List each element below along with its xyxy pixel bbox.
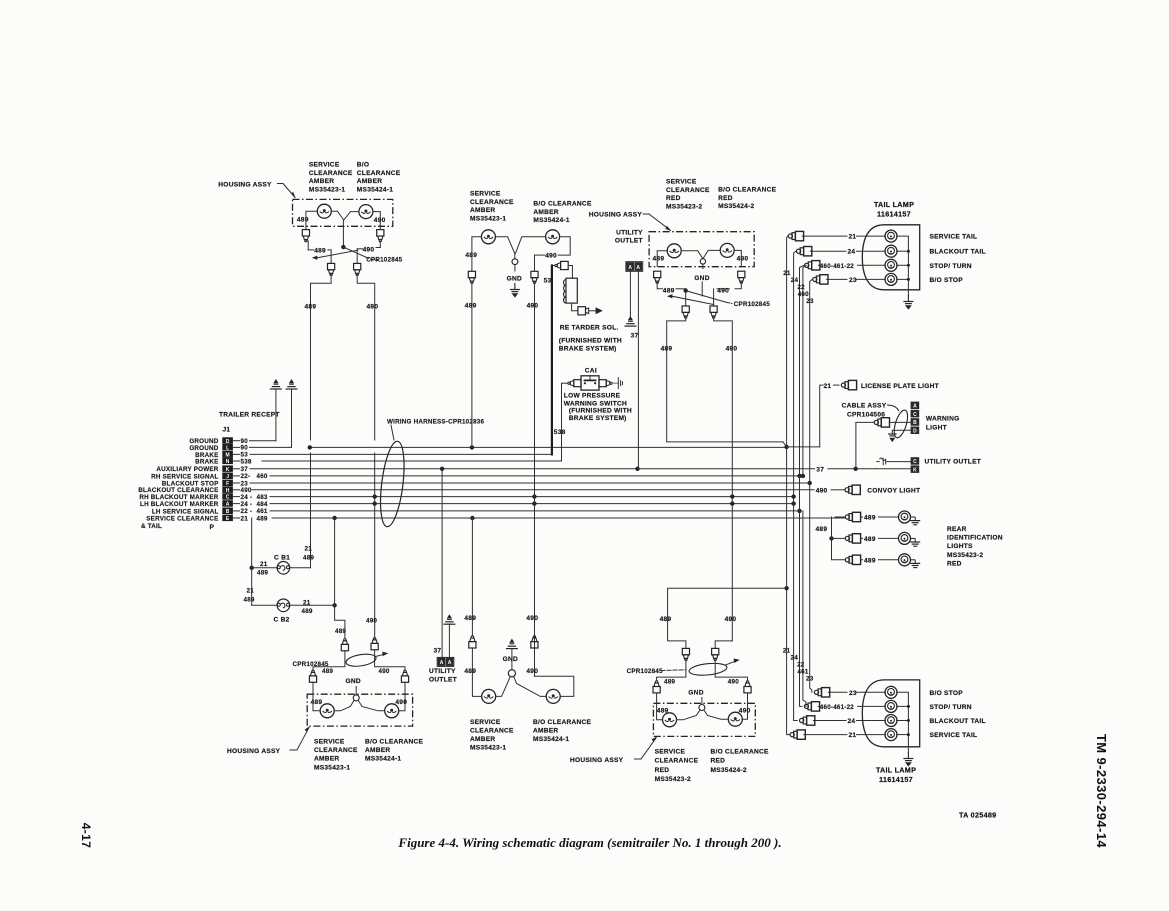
- wire 489 jog top-left: [306, 241, 308, 250]
- housing box bottom-left: [307, 694, 412, 726]
- ground stem row2: [291, 389, 293, 447]
- svg-text:RH BLACKOUT MARKER: RH BLACKOUT MARKER: [139, 494, 218, 501]
- svg-text:B/O CLEARANCE: B/O CLEARANCE: [365, 739, 424, 746]
- wire 489 jog down bottom-right: [657, 660, 686, 681]
- svg-text:CABLE ASSY: CABLE ASSY: [842, 402, 887, 409]
- connector plug 490a top-right: [738, 271, 745, 283]
- wire 22-460 row6: [270, 475, 803, 477]
- circuit breaker C B1: [277, 562, 290, 575]
- svg-text:B/O STOP: B/O STOP: [930, 690, 964, 697]
- svg-text:AMBER: AMBER: [357, 178, 382, 185]
- pin stub wires: [234, 440, 240, 442]
- svg-text:490: 490: [526, 668, 538, 675]
- connector plug 489a bottom-right: [682, 648, 689, 660]
- svg-text:HOUSING ASSY: HOUSING ASSY: [570, 757, 624, 764]
- svg-text:490: 490: [725, 616, 737, 623]
- svg-text:HOUSING ASSY: HOUSING ASSY: [218, 182, 272, 189]
- stub lp right: [612, 382, 618, 384]
- wiring harness leader: [391, 425, 394, 440]
- svg-text:484: 484: [257, 501, 268, 508]
- connector plug 490b bottom-left: [401, 670, 408, 682]
- svg-text:HOUSING ASSY: HOUSING ASSY: [589, 212, 643, 219]
- wire 490 feed bottom-right: [715, 641, 732, 649]
- svg-text:21: 21: [260, 561, 268, 568]
- svg-text:22: 22: [797, 284, 805, 291]
- svg-text:490: 490: [728, 678, 739, 685]
- svg-text:CONVOY LIGHT: CONVOY LIGHT: [867, 488, 920, 495]
- utility outlet top receptacle: [626, 262, 634, 271]
- svg-text:STOP/ TURN: STOP/ TURN: [930, 704, 972, 711]
- svg-text:24 -: 24 -: [241, 494, 253, 501]
- svg-text:C B2: C B2: [274, 617, 290, 624]
- svg-text:538: 538: [241, 458, 252, 465]
- svg-text:90: 90: [241, 445, 249, 452]
- svg-text:CPR102845: CPR102845: [734, 301, 770, 308]
- wire 490 drop jog top-left: [357, 275, 375, 441]
- lamp 490 top-middle: [546, 230, 560, 244]
- wire 21 row to bulb bottom: [804, 734, 847, 736]
- connector plug 21 bottom: [790, 730, 805, 739]
- svg-text:D: D: [913, 429, 917, 435]
- housing box top-left: [293, 199, 393, 226]
- wire 538 row4: [262, 460, 562, 462]
- svg-text:490: 490: [379, 668, 390, 675]
- svg-text:C: C: [913, 459, 917, 465]
- svg-text:RH SERVICE SIGNAL: RH SERVICE SIGNAL: [151, 473, 218, 480]
- wire rear id riser: [832, 517, 846, 560]
- connector plug 24 bottom: [800, 716, 815, 725]
- svg-text:BRAKE SYSTEM): BRAKE SYSTEM): [559, 345, 617, 352]
- svg-text:MS35423-2: MS35423-2: [655, 776, 691, 783]
- lamp 489 bottom-middle: [482, 689, 496, 703]
- svg-text:HOUSING ASSY: HOUSING ASSY: [227, 748, 281, 755]
- svg-text:GND: GND: [503, 656, 518, 663]
- svg-text:J1: J1: [223, 427, 231, 434]
- svg-text:489: 489: [335, 628, 346, 635]
- svg-text:490: 490: [816, 488, 828, 495]
- svg-text:SERVICE: SERVICE: [470, 191, 501, 198]
- wire 489 drop jog top-left: [311, 275, 332, 441]
- svg-text:AMBER: AMBER: [365, 747, 390, 754]
- svg-text:AMBER: AMBER: [314, 756, 339, 763]
- ground funnel bottom-left: [353, 695, 359, 701]
- svg-text:489: 489: [257, 515, 268, 522]
- ground symbol utility top: [624, 316, 636, 326]
- connector plug 490b bottom-right: [744, 681, 751, 693]
- tail lamp internal bus top: [897, 236, 909, 290]
- svg-text:B: B: [913, 420, 917, 426]
- node gnd dot top-left: [341, 245, 345, 249]
- wire 24-483 row9: [270, 496, 794, 498]
- svg-text:21: 21: [241, 515, 249, 522]
- lamp 489 top-right: [667, 244, 681, 258]
- connector plug retarder: [555, 264, 557, 266]
- connector plug 23 top: [813, 275, 828, 284]
- svg-text:L: L: [226, 446, 229, 452]
- wire 490 into box bottom-right: [742, 693, 747, 719]
- lamp 490 bottom-middle: [546, 689, 560, 703]
- low pressure switch body: [581, 376, 599, 390]
- wire 460 vertical right upper: [803, 265, 806, 476]
- wire 490 jog down bottom-right: [715, 660, 747, 681]
- svg-text:24: 24: [848, 718, 856, 725]
- svg-text:490: 490: [366, 618, 377, 625]
- wire 90 ground bus row2 segB: [310, 446, 787, 448]
- svg-text:37: 37: [631, 332, 639, 339]
- wire 490 jog top-left: [379, 241, 381, 248]
- svg-text:460: 460: [798, 291, 809, 298]
- svg-text:SERVICE TAIL: SERVICE TAIL: [930, 234, 978, 241]
- svg-text:D: D: [226, 439, 230, 445]
- svg-text:489: 489: [464, 668, 476, 675]
- svg-text:21: 21: [783, 270, 791, 277]
- svg-text:BRAKE: BRAKE: [195, 458, 218, 465]
- housing assy leader bottom-right: [635, 758, 642, 760]
- wire 37 row5: [250, 468, 815, 470]
- tail lamp body top: [862, 225, 919, 290]
- housing assy leader bottom-left: [290, 749, 297, 751]
- svg-text:AUXILIARY POWER: AUXILIARY POWER: [156, 466, 218, 473]
- bus junction dots: [308, 445, 312, 449]
- wire 489 into box bottom-left: [313, 682, 320, 711]
- svg-text:460-461-22: 460-461-22: [820, 263, 855, 270]
- wire to C B1: [252, 567, 277, 569]
- lamp 490 top-left: [359, 205, 373, 219]
- connector plug lp left: [574, 380, 581, 387]
- wire lamp490 to box edge top-right: [734, 250, 741, 266]
- svg-text:AMBER: AMBER: [470, 207, 495, 214]
- wire 21 vertical right: [787, 236, 790, 734]
- svg-text:F: F: [226, 481, 229, 487]
- connector plug 22 top: [805, 261, 820, 270]
- svg-text:489: 489: [816, 526, 828, 533]
- svg-text:490: 490: [374, 217, 386, 224]
- svg-text:MS35423-2: MS35423-2: [947, 552, 983, 559]
- connector plug 489a top-right: [654, 271, 661, 283]
- noise symbol utility right: [877, 461, 879, 463]
- svg-text:A: A: [448, 660, 452, 666]
- svg-text:23: 23: [806, 298, 814, 305]
- svg-text:B/O CLEARANCE: B/O CLEARANCE: [718, 187, 777, 194]
- svg-text:489: 489: [322, 668, 333, 675]
- ground circle top-middle: [512, 259, 518, 265]
- ground funnel top-middle: [496, 237, 515, 259]
- svg-text:21: 21: [849, 732, 857, 739]
- svg-text:& TAIL: & TAIL: [141, 523, 162, 530]
- svg-text:MS35423-1: MS35423-1: [470, 745, 506, 752]
- svg-text:TA 025489: TA 025489: [959, 811, 996, 820]
- harness loop bottom-right: [689, 662, 728, 677]
- housing box bottom-right: [653, 703, 755, 736]
- housing assy leader top-left: [278, 183, 284, 185]
- wire 489 feed bottom-right: [668, 588, 787, 648]
- svg-text:AMBER: AMBER: [533, 209, 558, 216]
- svg-text:B: B: [226, 509, 230, 515]
- svg-text:GROUND: GROUND: [189, 445, 218, 452]
- wire 490 drop jog top-right: [714, 317, 733, 641]
- svg-text:BRAKE SYSTEM): BRAKE SYSTEM): [569, 415, 627, 422]
- ground stem row1: [275, 389, 277, 441]
- utility outlet right receptacle: [911, 457, 920, 465]
- svg-text:OUTLET: OUTLET: [429, 677, 457, 684]
- tail lamp bulbs top: [885, 230, 897, 242]
- lamp 490 top-right: [720, 243, 734, 257]
- tail lamp ground bottom: [907, 747, 909, 752]
- svg-text:490: 490: [737, 255, 749, 262]
- connector plug 24 top: [797, 247, 812, 256]
- wire 24 row to bulb bottom: [813, 720, 846, 722]
- svg-text:21: 21: [849, 234, 857, 241]
- svg-text:489: 489: [302, 608, 313, 615]
- rear identification lamp rows: [845, 512, 860, 521]
- wire 23 row to bulb top: [827, 278, 847, 280]
- retarder coil: [566, 278, 577, 303]
- svg-text:LICENSE PLATE LIGHT: LICENSE PLATE LIGHT: [861, 383, 939, 390]
- svg-text:489: 489: [657, 707, 669, 714]
- wire 37 utility top: [637, 271, 639, 469]
- svg-text:21: 21: [783, 647, 791, 654]
- svg-text:11614157: 11614157: [877, 210, 911, 219]
- svg-text:489: 489: [864, 515, 876, 522]
- harness leader CPR102845 top-right: [686, 291, 727, 303]
- svg-text:UTILITY: UTILITY: [616, 229, 643, 236]
- svg-text:21: 21: [247, 588, 255, 595]
- svg-text:B/O CLEARANCE: B/O CLEARANCE: [533, 719, 592, 726]
- harness loop cable assy: [892, 409, 911, 440]
- connector plug cable assy: [874, 418, 889, 427]
- svg-text:483: 483: [257, 494, 268, 501]
- svg-text:489: 489: [297, 217, 309, 224]
- connector plug 23 bottom: [814, 688, 829, 697]
- svg-text:K: K: [913, 467, 917, 473]
- svg-text:460: 460: [257, 473, 268, 480]
- connector plug 489b bottom-right: [653, 681, 660, 693]
- svg-text:489: 489: [663, 287, 675, 294]
- tail lamp bulbs bottom: [885, 686, 897, 698]
- node dot crossover top-right: [684, 288, 688, 292]
- wire 461 vertical right lower: [803, 511, 806, 707]
- svg-text:489: 489: [661, 345, 673, 352]
- svg-text:37: 37: [816, 466, 824, 473]
- svg-text:489: 489: [244, 597, 255, 604]
- svg-text:MS35424-2: MS35424-2: [711, 767, 747, 774]
- ground drop cable assy: [892, 430, 910, 434]
- svg-text:SERVICE: SERVICE: [309, 162, 340, 169]
- wire license plate light: [820, 385, 823, 447]
- svg-text:CPR102845: CPR102845: [366, 257, 402, 264]
- svg-text:MS35423-2: MS35423-2: [666, 203, 702, 210]
- svg-text:490: 490: [395, 699, 407, 706]
- svg-text:22: 22: [797, 662, 805, 669]
- wire 490 vertical lower segment: [374, 453, 376, 638]
- connector plug retarder out: [578, 307, 586, 315]
- svg-text:N: N: [226, 459, 230, 465]
- wire C B2 to junction: [290, 604, 334, 606]
- svg-text:490: 490: [527, 303, 539, 310]
- svg-text:490: 490: [526, 615, 538, 622]
- connector plug 490b top-left: [354, 263, 361, 275]
- connector plug lp right: [599, 380, 606, 387]
- warning light receptacle: [911, 402, 920, 410]
- wire utility top ground: [629, 271, 631, 319]
- svg-text:AMBER: AMBER: [309, 178, 334, 185]
- svg-text:AMBER: AMBER: [533, 727, 558, 734]
- svg-text:MS35424-2: MS35424-2: [718, 203, 754, 210]
- svg-text:MS35424-1: MS35424-1: [365, 756, 401, 763]
- connector plug 22 bottom: [804, 702, 819, 711]
- ground funnel top-right: [681, 251, 702, 258]
- wire pin E drop: [251, 518, 253, 605]
- housing ground funnel top-left: [331, 211, 343, 247]
- svg-text:23: 23: [849, 690, 857, 697]
- svg-text:LOW PRESSURE: LOW PRESSURE: [564, 392, 621, 399]
- svg-text:A: A: [628, 265, 632, 271]
- svg-text:OUTLET: OUTLET: [615, 238, 643, 245]
- lamp 489 bottom-right: [663, 713, 677, 727]
- wire lamp490 to connector top-left: [373, 212, 380, 230]
- cable assy leader: [887, 405, 899, 411]
- svg-text:B/O CLEARANCE: B/O CLEARANCE: [533, 201, 592, 208]
- svg-text:37: 37: [241, 466, 249, 473]
- svg-text:TAIL LAMP: TAIL LAMP: [876, 766, 916, 775]
- svg-text:24 -: 24 -: [241, 501, 253, 508]
- wire 22 vertical right: [800, 265, 805, 706]
- harness arrow left top-right: [667, 294, 673, 298]
- harness leader to CPR102845 top-left: [343, 247, 368, 258]
- svg-text:23: 23: [806, 676, 814, 683]
- svg-text:24: 24: [791, 277, 799, 284]
- ground riser bottom-middle: [511, 649, 513, 670]
- svg-text:CLEARANCE: CLEARANCE: [470, 199, 514, 206]
- ground wire down top-right: [701, 282, 703, 296]
- wire 53 row3: [250, 453, 552, 455]
- svg-text:CPR104506: CPR104506: [847, 411, 885, 418]
- connector J1 pin column: [222, 437, 233, 444]
- wire 490 row8: [252, 489, 814, 491]
- svg-text:490: 490: [545, 253, 557, 260]
- svg-text:LIGHT: LIGHT: [926, 425, 947, 432]
- wire coil to connector: [572, 303, 578, 311]
- svg-text:SERVICE: SERVICE: [655, 748, 686, 755]
- svg-text:461: 461: [797, 669, 808, 676]
- svg-text:460-461-22: 460-461-22: [820, 704, 855, 711]
- wire cable assy riser: [856, 422, 874, 468]
- svg-text:IDENTIFICATION: IDENTIFICATION: [947, 535, 1003, 542]
- ground symbol chassis top-middle: [510, 283, 520, 298]
- svg-text:21: 21: [303, 600, 311, 607]
- svg-text:TAIL LAMP: TAIL LAMP: [874, 200, 914, 209]
- connector plug 490a bottom-left: [371, 638, 378, 650]
- svg-text:24: 24: [791, 655, 799, 662]
- wire 90 row1: [250, 440, 276, 442]
- svg-text:GND: GND: [688, 689, 703, 696]
- wire 53 connector: [552, 265, 555, 267]
- svg-text:B/O: B/O: [357, 162, 369, 169]
- svg-text:21: 21: [305, 546, 313, 553]
- svg-text:H: H: [226, 488, 230, 494]
- harness loop bottom-left: [345, 652, 377, 668]
- wire 538 to switch: [562, 382, 568, 384]
- tail lamp ground top: [907, 290, 909, 295]
- svg-text:A: A: [913, 404, 917, 410]
- svg-text:C B1: C B1: [274, 555, 290, 562]
- svg-text:CPR102845: CPR102845: [627, 668, 663, 675]
- svg-text:461: 461: [257, 508, 268, 515]
- wire 490 long vertical top-middle: [534, 283, 536, 676]
- svg-text:A: A: [636, 265, 640, 271]
- svg-text:11614157: 11614157: [879, 775, 913, 784]
- tail lamp internal bus bottom: [897, 692, 909, 747]
- svg-text:STOP/ TURN: STOP/ TURN: [930, 263, 972, 270]
- svg-text:LIGHTS: LIGHTS: [947, 543, 973, 550]
- svg-text:MS35423-1: MS35423-1: [314, 764, 350, 771]
- svg-text:489: 489: [464, 615, 476, 622]
- svg-text:LH SERVICE SIGNAL: LH SERVICE SIGNAL: [152, 508, 219, 515]
- svg-text:SERVICE CLEARANCE: SERVICE CLEARANCE: [146, 515, 218, 522]
- svg-text:GND: GND: [346, 678, 361, 685]
- wire 21 row to bulb top: [802, 235, 847, 237]
- svg-text:22-: 22-: [241, 473, 251, 480]
- wire 489 to ground bus: [471, 283, 473, 448]
- svg-text:RED: RED: [711, 758, 726, 765]
- lamp 490 bottom-left: [385, 704, 399, 718]
- svg-text:GND: GND: [694, 275, 709, 282]
- svg-text:490: 490: [739, 707, 751, 714]
- circuit breaker C B2: [277, 599, 290, 612]
- housing assy leader top-right: [643, 213, 649, 215]
- wire to C B2: [252, 604, 277, 606]
- wire 23 row to bulb bottom: [828, 691, 847, 693]
- wire 23 row7: [250, 482, 810, 484]
- ground funnel bottom-right: [699, 705, 705, 711]
- svg-text:B/O STOP: B/O STOP: [930, 277, 964, 284]
- ground symbol 2: [286, 379, 298, 389]
- svg-text:WIRING HARNESS-CPR102836: WIRING HARNESS-CPR102836: [387, 419, 484, 426]
- svg-text:489: 489: [465, 303, 477, 310]
- svg-text:Figure 4-4. Wiring schematic d: Figure 4-4. Wiring schematic diagram (se…: [397, 835, 781, 850]
- connector plug 489 bottom-middle: [469, 636, 476, 648]
- svg-text:53: 53: [544, 277, 552, 284]
- svg-text:CLEARANCE: CLEARANCE: [309, 170, 353, 177]
- utility outlet bottom receptacle: [438, 658, 446, 666]
- lamp 489 top-middle: [481, 230, 495, 244]
- svg-text:489: 489: [257, 570, 268, 577]
- connector plug 489a bottom-left: [341, 639, 348, 651]
- svg-text:37: 37: [434, 648, 442, 655]
- wire 23 vertical right: [810, 279, 813, 692]
- svg-text:RE TARDER SOL.: RE TARDER SOL.: [560, 324, 619, 331]
- svg-text:C: C: [226, 495, 230, 501]
- svg-text:TM 9-2330-294-14: TM 9-2330-294-14: [1094, 734, 1109, 848]
- svg-text:BLACKOUT TAIL: BLACKOUT TAIL: [930, 718, 986, 725]
- connector plug 21 top: [788, 231, 803, 240]
- connector plug 489a top-left: [302, 230, 309, 242]
- wire 490 drop top-middle: [558, 237, 570, 255]
- wire 538 vertical: [561, 383, 563, 461]
- svg-text:SERVICE: SERVICE: [666, 179, 697, 186]
- svg-text:489: 489: [660, 616, 672, 623]
- svg-text:489: 489: [311, 699, 323, 706]
- connector plug 490a top-left: [377, 230, 384, 242]
- svg-text:490: 490: [726, 345, 738, 352]
- wire junction down jog to connector: [335, 605, 345, 639]
- connector plug 489b top-right: [682, 306, 689, 318]
- svg-text:RED: RED: [718, 195, 733, 202]
- connector plug 489b top-left: [328, 263, 335, 275]
- wire 90 row2 segA: [250, 446, 292, 448]
- wire 489 vertical lower segment: [310, 453, 312, 568]
- connector plug 489 top-middle: [468, 271, 475, 283]
